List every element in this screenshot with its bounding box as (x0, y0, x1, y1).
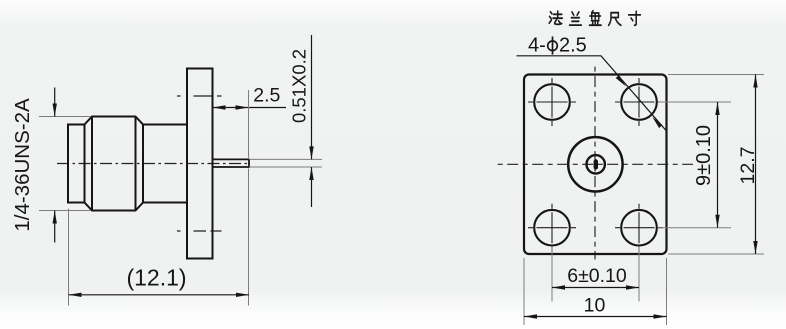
char 寸 (629, 11, 641, 25)
char 兰 (570, 12, 582, 25)
centerline main axis (57, 163, 249, 165)
dimension 6±0.10: extension lines (552, 247, 639, 302)
svg-text:(12.1): (12.1) (126, 265, 186, 291)
dimension 2.5: extension line at pin tip (248, 90, 250, 158)
center mark hole bottom-left (528, 204, 576, 252)
char 盘 (589, 11, 601, 26)
dimension 10: extension lines (524, 258, 667, 325)
dimension 12.7: dimension line (755, 75, 757, 255)
dimension (12.1) overall length: extension lines (69, 169, 249, 306)
center mark hole top-right (615, 78, 663, 126)
dimension 10: dimension line (524, 316, 667, 318)
leader underline and diameter line through top-right hole (517, 56, 667, 131)
main horizontal centerline (496, 163, 693, 165)
svg-text:1/4-36UNS-2A: 1/4-36UNS-2A (11, 98, 34, 232)
center contact circle (587, 155, 605, 173)
mounting hole bottom-right (621, 210, 657, 246)
center contact slot (594, 159, 598, 169)
center mark hole bottom-right (615, 204, 663, 252)
solder pin tab (213, 159, 250, 167)
svg-text:0.51X0.2: 0.51X0.2 (289, 49, 310, 123)
title 法兰盘尺寸 (hand-drawn strokes) (549, 11, 640, 26)
char 尺 (609, 13, 621, 26)
centerline upper mounting hole (side view) (177, 95, 222, 97)
hex body with chamfers (85, 117, 144, 211)
svg-text:12.7: 12.7 (737, 147, 759, 185)
svg-text:2.5: 2.5 (559, 35, 587, 57)
flange plate (front view) (524, 75, 667, 255)
svg-text:10: 10 (584, 295, 606, 317)
dimension 2.5 (pin protrusion): dimension line (213, 107, 287, 109)
dimension 0.51X0.2: dimension lines and arrows (311, 35, 313, 207)
mounting hole top-right (621, 84, 657, 120)
char 法 (549, 11, 562, 24)
flange (side view) (187, 69, 213, 259)
centerline lower mounting hole (side view) (177, 230, 222, 232)
dimension 9±0.10: dimension line (717, 102, 719, 228)
front threaded step (small cylinder) (68, 125, 85, 203)
dimension 9±0.10: extension lines (659, 102, 732, 228)
dimension 0.51X0.2: extension lines from pin edges (249, 159, 322, 167)
phi symbol (548, 37, 558, 55)
mounting hole top-left (534, 84, 570, 120)
dimension (12.1): dimension line (69, 294, 250, 296)
svg-text:4-: 4- (528, 35, 546, 57)
rear cylinder between body and flange (143, 125, 187, 203)
center insulator circle (568, 137, 622, 191)
dimension 12.7: extension lines (668, 75, 764, 255)
main vertical centerline (594, 63, 596, 260)
svg-text:6±0.10: 6±0.10 (567, 265, 627, 287)
dimension 1/4-36UNS-2A: extension lines (39, 117, 91, 211)
dimension 6±0.10: dimension line (552, 287, 639, 289)
dimension 1/4-36UNS-2A: arrows (54, 88, 56, 243)
mounting hole bottom-left (534, 210, 570, 246)
svg-text:9±0.10: 9±0.10 (693, 125, 715, 186)
svg-text:2.5: 2.5 (253, 85, 280, 107)
center mark hole top-left (528, 78, 576, 126)
